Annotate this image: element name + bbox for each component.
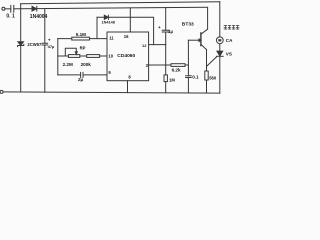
svg-text:47µ: 47µ [48,44,55,49]
svg-text:VS: VS [226,52,232,57]
svg-text:560: 560 [209,76,217,81]
svg-text:+: + [48,38,51,43]
svg-text:12: 12 [142,43,147,48]
svg-text:6.2k: 6.2k [172,67,181,72]
svg-text:CD4060: CD4060 [117,53,135,59]
svg-text:5.1M: 5.1M [76,32,86,37]
svg-text:0.1: 0.1 [192,75,199,80]
svg-text:2µ: 2µ [78,77,84,82]
svg-text:1N4004: 1N4004 [30,14,48,20]
svg-text:16: 16 [124,34,129,39]
svg-text:2.2M: 2.2M [63,62,73,67]
svg-text:1N4148: 1N4148 [102,20,115,24]
svg-text:CA: CA [226,38,233,43]
svg-text:1µ: 1µ [168,29,173,34]
svg-text:10: 10 [108,54,113,59]
svg-text:2CW57: 2CW57 [27,42,42,47]
svg-text:0. 1: 0. 1 [6,13,15,19]
svg-text:RP: RP [80,45,86,50]
svg-text:200k: 200k [81,62,92,67]
svg-text:11: 11 [109,35,114,40]
svg-text:1M: 1M [169,77,175,82]
svg-text:BT33: BT33 [182,22,194,28]
svg-text:+: + [158,25,161,30]
